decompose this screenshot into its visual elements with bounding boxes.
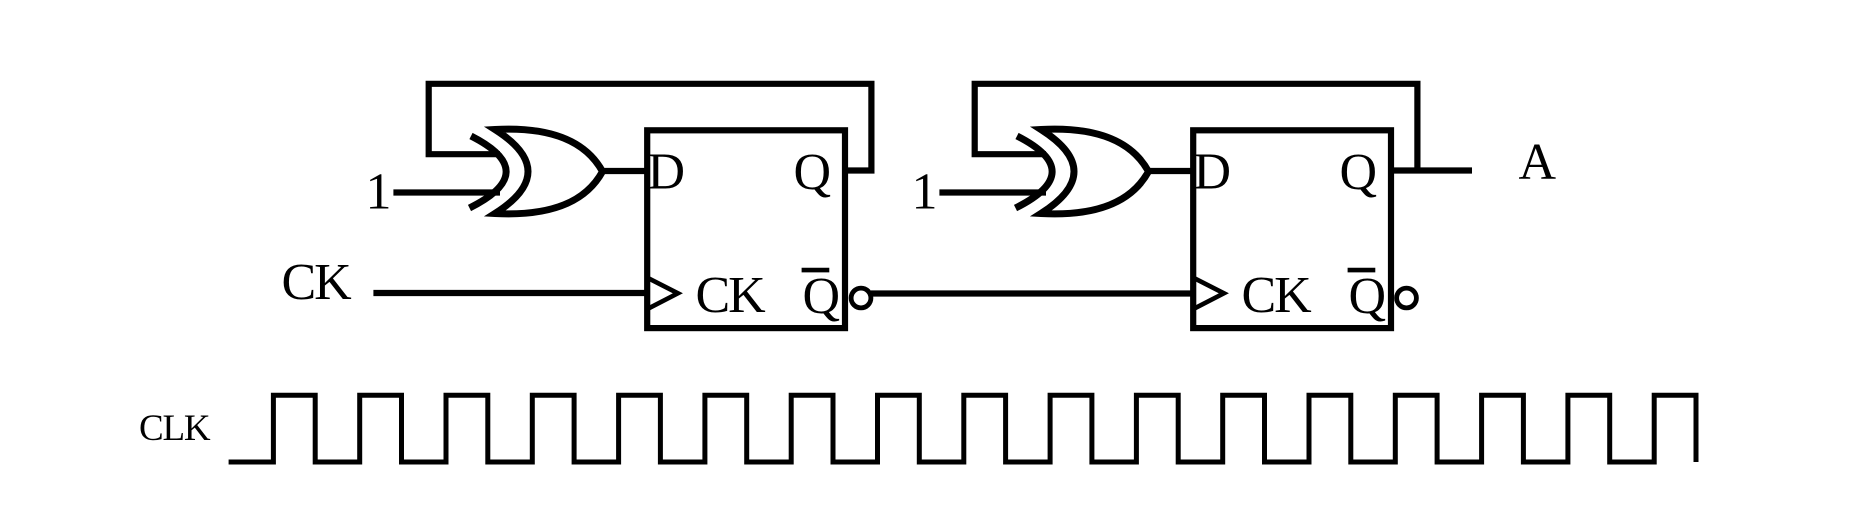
wire: constant 1 to XOR1 lower input xyxy=(393,189,500,195)
wire: XOR2 output to D input of FF2 xyxy=(1146,168,1196,174)
svg-text:CK: CK xyxy=(696,267,767,324)
wire: feedback from Q2 up/left/down to XOR2 top input xyxy=(975,84,1418,171)
XOR gate U1 extra input arc xyxy=(470,136,507,208)
svg-text:CK: CK xyxy=(282,254,353,311)
clock edge triangle (FF1) xyxy=(649,278,678,308)
svg-text:D: D xyxy=(1194,144,1232,201)
clock edge triangle (FF2) xyxy=(1195,278,1224,308)
inversion bubble on FF1 Q-bar output xyxy=(851,288,871,308)
svg-text:A: A xyxy=(1519,134,1557,191)
svg-text:1: 1 xyxy=(366,164,392,221)
D flip-flop FF1 box xyxy=(647,130,845,328)
XOR gate U1 body xyxy=(495,129,603,214)
svg-text:D: D xyxy=(648,144,686,201)
D flip-flop FF2 box xyxy=(1193,130,1391,328)
svg-text:Q: Q xyxy=(1349,268,1387,325)
svg-text:Q: Q xyxy=(803,268,841,325)
XOR gate U2 body xyxy=(1041,129,1149,214)
wire: constant 1 to XOR2 lower input xyxy=(939,189,1046,195)
pin label Q-bar (FF1): overbar xyxy=(802,268,830,273)
svg-text:CLK: CLK xyxy=(139,408,211,449)
XOR gate U2 extra input arc xyxy=(1016,136,1053,208)
svg-text:1: 1 xyxy=(912,164,938,221)
pin label Q-bar (FF2): overbar xyxy=(1348,268,1376,273)
svg-text:Q: Q xyxy=(1340,144,1378,201)
wire: feedback from Q1 up/left/down to XOR1 top input xyxy=(429,84,872,171)
svg-text:CK: CK xyxy=(1242,267,1313,324)
wire: CK to FF1 clock input xyxy=(373,290,648,296)
inversion bubble on FF2 Q-bar output xyxy=(1397,288,1417,308)
wire: Q1 output stub to feedback corner xyxy=(845,167,875,173)
svg-text:Q: Q xyxy=(794,144,832,201)
CLK clock waveform xyxy=(229,395,1696,462)
wire: XOR1 output to D input of FF1 xyxy=(600,168,650,174)
wire: FF1 Q-bar to FF2 clock input xyxy=(871,290,1196,296)
wire: Q2 output to node A xyxy=(1391,167,1472,173)
